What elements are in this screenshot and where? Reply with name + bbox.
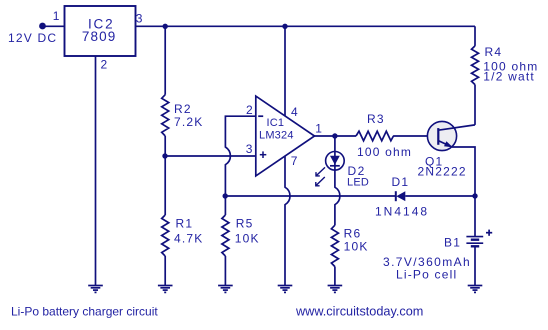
plus sign at non-inverting input [260, 151, 267, 158]
wire D1 anode to battery node [405, 195, 475, 197]
junction top rail / pin 4 [282, 24, 287, 29]
wire op-amp output to R3 [315, 135, 357, 137]
wire node A to op-amp pin 3 [165, 155, 256, 157]
LED D2 [326, 152, 345, 171]
wire input terminal to IC2 pin 1 [43, 25, 65, 27]
op-amp IC1 LM324 triangle [256, 96, 315, 176]
wire D2 anode lead [334, 136, 336, 152]
svg-text:3: 3 [136, 11, 144, 25]
wire Q1 emitter to battery node [452, 147, 475, 196]
wire R4 to Q1 collector [474, 85, 476, 125]
svg-text:100 ohm: 100 ohm [357, 145, 412, 159]
resistor R4 [472, 46, 479, 85]
wire top 9V rail [136, 25, 476, 27]
svg-text:R1: R1 [176, 216, 194, 230]
resistor R3 [356, 131, 393, 141]
wire feedback net to D1 cathode [225, 195, 395, 197]
svg-text:B1: B1 [444, 235, 461, 249]
minus sign at inverting input [258, 115, 263, 117]
resistor R5 [222, 215, 229, 256]
resistor R6 [331, 225, 338, 266]
wire R1 bottom lead [164, 256, 166, 286]
svg-text:LM324: LM324 [259, 130, 294, 142]
wire R6 bottom lead [334, 267, 336, 286]
wire battery bottom lead [474, 246, 476, 285]
junction feedback node pin2/R5/D1 [223, 193, 228, 198]
wire R2 bottom lead [164, 136, 166, 156]
svg-text:Li-Po battery charger circuit: Li-Po battery charger circuit [11, 305, 158, 319]
wire R5 bottom lead [224, 256, 226, 286]
svg-text:2: 2 [246, 103, 254, 117]
wire IC2 pin 2 to ground [95, 56, 97, 286]
svg-text:IC1: IC1 [267, 117, 285, 129]
ground at IC2 pin 2 [88, 286, 103, 293]
wire op-amp pin 4 to top rail [284, 26, 286, 116]
svg-text:1/2 watt: 1/2 watt [483, 70, 535, 84]
svg-text:12V DC: 12V DC [8, 31, 57, 45]
wire R3 to Q1 base [393, 135, 438, 137]
svg-text:2: 2 [101, 57, 109, 71]
svg-text:7.2K: 7.2K [174, 115, 204, 129]
junction output / D2 [332, 133, 337, 138]
svg-text:7: 7 [291, 154, 299, 168]
svg-text:10K: 10K [235, 231, 260, 245]
junction top rail / R2 [163, 24, 168, 29]
wire D2 cathode to R6 with hop over feedback line [335, 170, 340, 225]
ground at R5 [218, 286, 233, 293]
svg-text:www.circuitstoday.com: www.circuitstoday.com [295, 305, 423, 319]
svg-text:R5: R5 [236, 216, 254, 230]
svg-text:D1: D1 [392, 175, 410, 189]
ground at pin 7 [278, 286, 293, 293]
LED emission arrow 1 [316, 167, 325, 176]
battery B1 [466, 237, 483, 247]
wire R1 top lead [164, 156, 166, 215]
svg-text:1N4148: 1N4148 [375, 204, 429, 218]
node 12V DC input terminal [39, 23, 46, 30]
resistor R2 [162, 95, 169, 136]
ground at R1 [158, 286, 173, 293]
diode D1 [396, 191, 406, 201]
wire op-amp pin 2 down to feedback node with hop over pin 3 wire [225, 116, 255, 196]
svg-text:10K: 10K [344, 240, 369, 254]
svg-text:Li-Po cell: Li-Po cell [396, 268, 457, 282]
wire right rail top to R4 [474, 26, 476, 46]
wire R5 top lead [224, 196, 226, 215]
Q1 collector line [438, 125, 475, 130]
svg-text:3: 3 [246, 142, 254, 156]
svg-text:R2: R2 [174, 102, 192, 116]
regulator IC2 box [65, 6, 136, 56]
plus sign at battery positive terminal [486, 230, 492, 236]
ground at battery [468, 286, 483, 293]
LED emission arrow 2 [316, 177, 325, 186]
svg-text:LED: LED [347, 177, 369, 189]
svg-text:1: 1 [315, 121, 323, 135]
node A junction R2/R1/op-amp pin 3 [162, 153, 167, 158]
wire R2 top lead [164, 26, 166, 94]
svg-text:R3: R3 [367, 112, 385, 126]
ground at R6 [328, 286, 343, 293]
svg-text:7809: 7809 [82, 29, 116, 44]
svg-text:R6: R6 [344, 227, 362, 241]
svg-text:R4: R4 [485, 45, 503, 59]
svg-text:2N2222: 2N2222 [418, 165, 467, 179]
svg-text:1: 1 [53, 9, 61, 23]
svg-text:4.7K: 4.7K [174, 231, 204, 245]
resistor R1 [162, 215, 169, 256]
wire op-amp pin 7 to ground with hop over feedback line [285, 156, 290, 286]
transistor Q1 body [427, 121, 456, 150]
svg-text:4: 4 [291, 105, 299, 119]
wire battery top lead [474, 196, 476, 237]
junction battery node emitter/D1/B1 [472, 193, 477, 198]
Q1 emitter line with arrow [438, 141, 453, 148]
